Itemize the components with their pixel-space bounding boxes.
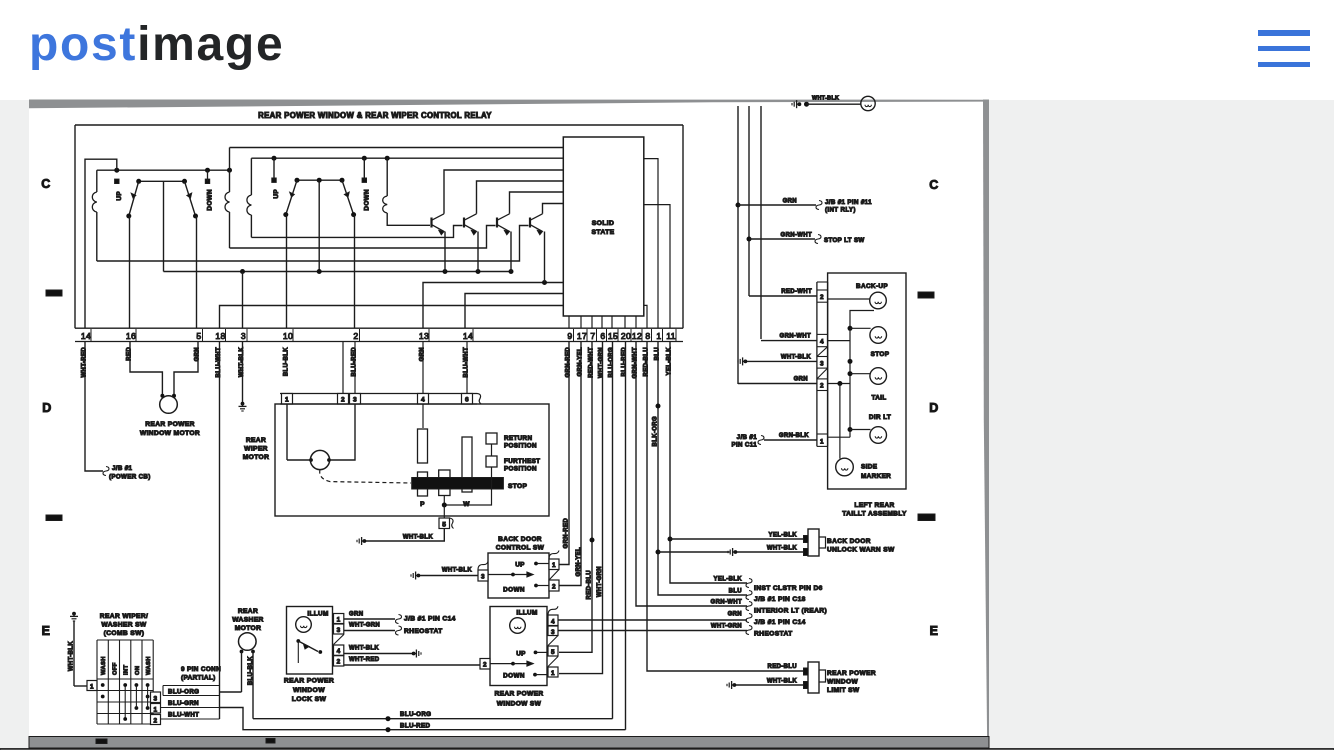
- svg-text:BLK-ORG: BLK-ORG: [653, 416, 659, 446]
- svg-text:4: 4: [337, 648, 341, 655]
- alignment mark right C: [918, 292, 934, 298]
- wire GRN lock sw: [344, 618, 395, 620]
- svg-text:UP: UP: [116, 191, 123, 201]
- wire to dir bulb: [850, 429, 871, 431]
- svg-text:13: 13: [419, 331, 429, 341]
- wiper motor terminal left: [309, 458, 313, 462]
- comb grid vertical 3: [130, 640, 132, 724]
- wire coilC top: [250, 158, 252, 195]
- svg-text:BLU-ORG: BLU-ORG: [168, 689, 199, 696]
- alignment mark bottom center: [266, 739, 275, 744]
- lamp SIDE MARKER: [836, 458, 854, 476]
- contact UP fixed group2: [272, 178, 276, 182]
- alignment mark right E: [918, 514, 935, 521]
- svg-text:14: 14: [463, 331, 473, 341]
- taillight connector rung y302.2: [817, 301, 828, 303]
- relay coil K2c: [383, 196, 388, 213]
- svg-text:STATE: STATE: [591, 229, 614, 236]
- svg-text:D: D: [42, 401, 51, 415]
- svg-text:18: 18: [215, 331, 225, 341]
- taillight connector rung y356.5: [817, 356, 828, 358]
- svg-text:WHT-RED: WHT-RED: [349, 657, 380, 663]
- wire bus4 ground bus: [164, 271, 512, 273]
- wiper connector strip bottom: [280, 403, 477, 405]
- washer terminal right: [251, 650, 255, 654]
- contact P upper: [418, 429, 428, 463]
- svg-text:BACK-UP: BACK-UP: [856, 283, 888, 290]
- svg-text:ILLUM: ILLUM: [516, 610, 537, 617]
- svg-text:14: 14: [81, 331, 91, 341]
- svg-text:BLU-RED: BLU-RED: [351, 347, 357, 377]
- svg-text:YEL-BLK: YEL-BLK: [769, 533, 798, 539]
- wire bus7 pin18 to solidstate: [220, 306, 564, 329]
- wire RED-WHT vertical from top: [748, 106, 750, 296]
- svg-text:DOWN: DOWN: [503, 587, 525, 594]
- ground unlock warn: [728, 548, 737, 556]
- comb contact dot 136.4,685: [135, 683, 139, 687]
- svg-text:(POWER CB): (POWER CB): [109, 474, 151, 481]
- wire WHT-BLK to taillight pin3: [747, 360, 817, 362]
- svg-text:GRN-WHT: GRN-WHT: [780, 334, 811, 340]
- svg-text:BLU-WHT: BLU-WHT: [463, 347, 469, 377]
- wire GRN-WHT vertical from top: [760, 106, 762, 339]
- svg-text:RHEOSTAT: RHEOSTAT: [754, 631, 793, 638]
- hatch mark 1: [817, 347, 828, 357]
- U1 pin stub x569: [568, 316, 570, 328]
- contact mid: [439, 470, 450, 496]
- ground limit sw: [727, 681, 736, 689]
- hook inst clstr: [746, 579, 752, 588]
- svg-text:WASH: WASH: [101, 656, 107, 675]
- hook rheostat a: [396, 626, 402, 635]
- svg-text:3: 3: [154, 696, 158, 703]
- svg-text:J/B #1 PIN C14: J/B #1 PIN C14: [754, 619, 806, 626]
- svg-text:PIN C11: PIN C11: [732, 442, 758, 449]
- scan photo dark top edge: [29, 100, 983, 109]
- wire GRN-YEL pin17 to bdcs2: [559, 342, 581, 586]
- svg-text:BLU: BLU: [729, 589, 742, 595]
- U1 pin stub x581: [580, 316, 582, 328]
- pin 14 tick: [472, 329, 474, 341]
- lamp illum window sw: [510, 618, 526, 634]
- taillight connector rung y290: [817, 289, 828, 291]
- svg-text:RED-WHT: RED-WHT: [781, 289, 812, 295]
- relay coil K1a: [92, 192, 97, 212]
- wire RED-WHT to taillight pin2: [749, 295, 817, 297]
- arrowhead switch1 left arm: [131, 193, 136, 198]
- pin 7 tick: [596, 329, 598, 341]
- svg-text:ON: ON: [135, 666, 141, 675]
- transistor Q1: [432, 214, 445, 235]
- svg-text:(PARTIAL): (PARTIAL): [181, 675, 216, 682]
- node switch1 lower right: [193, 214, 198, 219]
- node side marker tap: [837, 381, 842, 386]
- taillight connector rung y334.4: [817, 333, 828, 335]
- connector hook J/B power cb: [103, 467, 109, 476]
- stop cam plate: [412, 478, 504, 490]
- ground top cutoff: [792, 100, 801, 108]
- pin 3 tick: [246, 329, 248, 341]
- svg-text:REAR POWER: REAR POWER: [145, 421, 195, 428]
- svg-text:2: 2: [353, 331, 358, 341]
- wire pin10 up to switch: [286, 215, 288, 329]
- svg-text:RED-BLU: RED-BLU: [587, 570, 593, 599]
- bdcs up link: [536, 563, 549, 565]
- svg-text:STOP: STOP: [508, 483, 527, 490]
- arrowhead switch2 left arm: [290, 192, 295, 197]
- svg-text:15: 15: [608, 331, 618, 341]
- contact furthest position: [486, 456, 497, 467]
- comb pin 1 box: [87, 681, 97, 691]
- wire GRN-RED pin9 to bdcs1: [559, 342, 569, 565]
- pin 16 tick: [135, 329, 137, 341]
- comb contact dot 136.4,708: [135, 706, 139, 710]
- svg-text:WHT-BLK: WHT-BLK: [442, 568, 472, 574]
- comb ON column link: [135, 685, 137, 708]
- pin 20 tick: [630, 329, 632, 341]
- svg-text:GRN: GRN: [783, 199, 797, 205]
- window sw common link: [490, 663, 512, 665]
- svg-text:BLU-RED: BLU-RED: [400, 723, 430, 730]
- svg-text:1: 1: [285, 397, 289, 404]
- svg-text:CONTROL SW: CONTROL SW: [496, 545, 545, 552]
- wiper pin5 hook: [450, 518, 454, 529]
- transistor Q2: [464, 214, 477, 235]
- svg-text:1: 1: [552, 562, 556, 569]
- comb pin 2 box: [151, 715, 161, 725]
- wire to wiper motor left: [287, 459, 310, 461]
- wire BLU pin1 to J/B C18: [658, 342, 747, 596]
- ground wiper park: [357, 537, 366, 545]
- wire coilD to Q1 base: [387, 213, 430, 225]
- scanned diagram white area: [29, 99, 989, 748]
- svg-text:FURTHEST: FURTHEST: [504, 458, 540, 465]
- wire Q2 collector to U1: [477, 181, 564, 214]
- node bus stop: [848, 326, 853, 331]
- svg-text:WASHER SW: WASHER SW: [101, 622, 146, 629]
- comb contact dot 102.7,685: [101, 683, 105, 687]
- wire coilC to bus1: [250, 215, 252, 237]
- wire coilD top: [386, 158, 388, 196]
- svg-text:SOLID: SOLID: [592, 220, 615, 227]
- pin 18 tick: [225, 329, 227, 341]
- node GRN tap: [736, 203, 741, 208]
- svg-text:3: 3: [337, 627, 341, 634]
- window sw column hook: [548, 606, 558, 615]
- lamp illum lock sw: [296, 617, 312, 633]
- connector hook J/B pin11: [816, 201, 822, 210]
- node BLU-ORG bottom: [386, 716, 391, 721]
- motor M1 rear power window motor: [160, 396, 178, 414]
- wire YEL-BLK to unlock warn sw: [670, 538, 806, 540]
- relay box top edge: [75, 124, 683, 126]
- wire pin2 tail to bus: [828, 383, 850, 385]
- svg-text:2: 2: [552, 584, 556, 591]
- wire switch2 common down: [318, 180, 320, 271]
- wire group2 box top: [230, 147, 564, 149]
- comb contact dot 125.2,685: [123, 683, 127, 687]
- taillight connector rung y378.9: [817, 378, 828, 380]
- svg-text:DOWN: DOWN: [364, 189, 371, 211]
- svg-text:ILLUM: ILLUM: [307, 611, 328, 618]
- comb grid horizontal 679: [97, 678, 153, 680]
- svg-text:REAR POWER: REAR POWER: [495, 691, 544, 698]
- svg-text:7: 7: [590, 331, 595, 341]
- svg-text:17: 17: [577, 331, 587, 341]
- wire wiper pin1 down: [286, 404, 288, 460]
- svg-text:GRN-RED: GRN-RED: [564, 518, 570, 549]
- taillight connector rung y390.5: [817, 390, 828, 392]
- wire to stop bulb: [850, 327, 871, 329]
- comb label row line 2: [163, 695, 220, 697]
- svg-text:DOWN: DOWN: [503, 673, 525, 680]
- window sw up contact: [534, 651, 538, 655]
- motor terminal right: [172, 394, 176, 398]
- svg-text:WASHER: WASHER: [232, 617, 263, 624]
- svg-text:REAR POWER: REAR POWER: [827, 670, 876, 677]
- svg-text:DIR LT: DIR LT: [869, 414, 891, 421]
- svg-text:BLU-WHT: BLU-WHT: [168, 712, 199, 719]
- svg-text:J/B #1 PIN C14: J/B #1 PIN C14: [404, 616, 456, 623]
- window sw down link: [535, 674, 548, 676]
- svg-text:REAR POWER WINDOW & REAR WIPER: REAR POWER WINDOW & REAR WIPER CONTROL R…: [258, 111, 492, 120]
- svg-text:GRN-BLK: GRN-BLK: [779, 433, 809, 439]
- wire Q4 emitter down: [544, 232, 546, 283]
- svg-text:MOTOR: MOTOR: [243, 454, 270, 461]
- wire GRN-WHT to stop lt sw: [749, 238, 815, 240]
- svg-text:WHT-BLK: WHT-BLK: [69, 641, 75, 671]
- header bar: [0, 0, 1334, 100]
- rear power window switch box: [490, 607, 547, 686]
- wire washer right down: [252, 652, 254, 719]
- wire pin5 up to switch: [196, 216, 198, 328]
- svg-text:WHT-BLK: WHT-BLK: [812, 96, 839, 102]
- wire WHT-GRN window sw to rheostat: [558, 630, 747, 632]
- svg-text:UP: UP: [515, 562, 525, 569]
- left rear taillight assembly box: [828, 273, 906, 489]
- node rail1-UP1: [114, 168, 119, 173]
- window sw down contact: [533, 673, 537, 677]
- bdcs pin 3 box: [478, 570, 488, 581]
- wire BLU-WHT pin18 long vertical: [219, 342, 221, 720]
- arrowhead lock sw arm: [304, 644, 310, 649]
- pin 13 tick: [428, 329, 430, 341]
- node switch1 bar right: [182, 179, 187, 184]
- ground pin3: [239, 402, 247, 411]
- svg-text:OFF: OFF: [112, 662, 118, 675]
- svg-text:WHT-GRN: WHT-GRN: [598, 347, 604, 378]
- node bus tail: [848, 371, 853, 376]
- svg-text:WHT-BLK: WHT-BLK: [403, 535, 433, 541]
- wire bus1 coilC to Q2 base: [251, 226, 462, 238]
- node rail2-DOWN2: [362, 156, 367, 161]
- pin strip bottom line: [75, 341, 683, 343]
- rear wiper motor box: [275, 404, 549, 516]
- comb INT column link: [124, 685, 126, 719]
- svg-text:WHT-GRN: WHT-GRN: [711, 624, 742, 630]
- node rail1-DOWN1: [205, 168, 210, 173]
- wire WHT-BLK to bdcs: [420, 575, 478, 577]
- wire WHT-BLK lock sw: [344, 653, 412, 655]
- motor M2 rear wiper motor: [310, 450, 329, 469]
- relay coil K2a: [225, 192, 230, 212]
- svg-text:WHT-BLK: WHT-BLK: [349, 646, 379, 652]
- bdcs common link: [488, 574, 512, 576]
- wire GRN-BLK to taillight pin1: [764, 439, 817, 441]
- svg-text:UNLOCK WARN SW: UNLOCK WARN SW: [827, 547, 895, 554]
- svg-text:WINDOW SW: WINDOW SW: [497, 701, 542, 708]
- bdcs down link: [536, 585, 549, 587]
- wire WHT-RED to J/B: [85, 342, 103, 472]
- rear power window limit switch body: [804, 662, 826, 693]
- svg-text:D: D: [929, 401, 938, 415]
- comb grid vertical 4: [141, 640, 143, 724]
- ground comb switch: [70, 612, 78, 621]
- bdcs down contact: [534, 584, 538, 588]
- hook jb c14 a: [396, 615, 402, 624]
- svg-text:LEFT REAR: LEFT REAR: [854, 502, 894, 509]
- wire rail group1 top: [97, 169, 230, 171]
- window sw pin 4 box: [548, 615, 558, 626]
- wire GRN vertical from top: [737, 106, 739, 384]
- svg-text:MARKER: MARKER: [861, 473, 891, 480]
- node YEL-BLK unlock tap: [668, 537, 673, 542]
- wire to side marker: [839, 384, 841, 459]
- svg-text:6: 6: [600, 331, 605, 341]
- node GRN-WHT tap: [747, 237, 752, 242]
- wire RED-BLU pin7 to window sw 5: [559, 342, 592, 653]
- svg-text:11: 11: [666, 331, 676, 341]
- wire GRN-WHT pin12 to interior lt: [636, 342, 747, 607]
- svg-text:INT: INT: [124, 665, 130, 675]
- comb grid vertical 0: [96, 640, 98, 724]
- alignment mark bottom left: [96, 739, 107, 744]
- pin 8 tick: [651, 329, 653, 341]
- svg-text:WIPER: WIPER: [244, 446, 268, 453]
- svg-text:2: 2: [337, 659, 341, 666]
- wire comb BLU-ORG row to washer: [220, 691, 242, 693]
- node rail1-coilA: [227, 168, 232, 173]
- svg-text:RED-BLU: RED-BLU: [768, 664, 797, 670]
- contact DOWN fixed group2: [362, 178, 366, 182]
- window sw pin 1 box: [548, 667, 558, 677]
- svg-text:3: 3: [820, 361, 824, 368]
- pin 14 tick: [90, 329, 92, 341]
- svg-text:WHT-BLK: WHT-BLK: [767, 679, 797, 685]
- wire GRN pin13 to wiper pin4: [422, 342, 424, 394]
- node bus dir: [848, 427, 853, 432]
- taillight connector right rail: [827, 282, 829, 446]
- svg-text:1: 1: [551, 670, 555, 677]
- node bus5 Q4 emitter: [542, 280, 547, 285]
- hamburger menu icon: [1258, 30, 1310, 36]
- svg-text:2: 2: [341, 397, 345, 404]
- wire U1 to pin8: [644, 305, 647, 328]
- svg-text:WHT-BLK: WHT-BLK: [781, 354, 811, 360]
- wire switch1 common down: [163, 181, 165, 271]
- svg-text:3: 3: [353, 397, 357, 404]
- wire return to furthest: [491, 444, 493, 456]
- alignment mark left E: [46, 515, 62, 521]
- lamp TAIL: [870, 368, 887, 385]
- svg-text:BLU-GRN: BLU-GRN: [168, 700, 199, 707]
- postimage logo: [29, 17, 284, 72]
- bdcs pin1 hook: [549, 551, 559, 559]
- back door control switch box: [488, 553, 549, 598]
- svg-text:LOCK SW: LOCK SW: [292, 696, 327, 703]
- comb grid horizontal 702: [97, 701, 153, 703]
- wire BLU-ORG long bottom: [253, 718, 613, 720]
- wire pin1 to bus: [828, 436, 850, 438]
- svg-text:GRN-YEL: GRN-YEL: [576, 547, 582, 576]
- wire WHT-GRN lock sw: [344, 630, 395, 632]
- node BLU-RED bottom: [386, 727, 391, 732]
- svg-text:GRN: GRN: [728, 612, 742, 618]
- svg-text:SIDE: SIDE: [861, 464, 878, 471]
- rear power window lock switch box: [287, 607, 333, 675]
- wire GRN window sw to J/B C14: [558, 619, 747, 621]
- comb WASH2 column link: [147, 685, 149, 708]
- svg-text:2: 2: [154, 718, 158, 725]
- U1 pin stub x636: [635, 316, 637, 328]
- svg-text:1: 1: [820, 439, 824, 446]
- lock sw hatch: [334, 635, 344, 645]
- svg-text:UP: UP: [273, 189, 280, 199]
- svg-text:WASH: WASH: [146, 656, 152, 675]
- svg-text:REAR POWER: REAR POWER: [284, 678, 334, 685]
- comb grid vertical 1: [107, 640, 109, 724]
- lock sw contact b: [318, 650, 322, 654]
- comb pin 3 box: [151, 692, 161, 703]
- node rail2-coilD: [385, 156, 390, 161]
- wire coilA to bus3: [96, 212, 98, 261]
- svg-text:J/B #1: J/B #1: [737, 434, 758, 441]
- svg-text:5: 5: [442, 522, 446, 529]
- contact UP fixed group1: [115, 179, 119, 183]
- hook jb c18: [746, 591, 752, 600]
- comb contact dot 147.6,708: [146, 706, 150, 710]
- svg-text:REAR: REAR: [238, 608, 258, 615]
- wire GRN to window motor: [174, 342, 198, 397]
- pin 5 tick: [202, 329, 204, 341]
- wire Q3 emitter down: [510, 232, 512, 272]
- wire UP2 stub: [273, 158, 275, 180]
- comb grid horizontal 713.5: [97, 713, 153, 715]
- svg-text:RETURN: RETURN: [504, 435, 532, 442]
- svg-text:4: 4: [421, 397, 425, 404]
- switch bar group2: [297, 179, 342, 181]
- svg-text:BLU-BLK: BLU-BLK: [248, 656, 254, 685]
- node rail2-UP2: [272, 156, 277, 161]
- svg-text:WINDOW: WINDOW: [827, 679, 858, 686]
- wire Q1 emitter down: [444, 232, 446, 272]
- wiper connector hook end: [477, 394, 481, 405]
- taillight connector rung y446.4: [817, 445, 828, 447]
- wire wiper motor to pin3: [330, 404, 355, 460]
- lock sw pin 1 box: [334, 614, 344, 624]
- svg-text:1: 1: [656, 331, 661, 341]
- svg-text:WINDOW MOTOR: WINDOW MOTOR: [140, 430, 200, 437]
- node bus4-Q2e: [476, 269, 481, 274]
- svg-text:3: 3: [241, 331, 246, 341]
- svg-text:STOP LT SW: STOP LT SW: [824, 237, 865, 244]
- wire BLU-RED pin2 to wiper pin3: [354, 342, 356, 394]
- lock sw arm: [298, 641, 318, 652]
- pin 17 tick: [586, 329, 588, 341]
- wire washer left down: [241, 652, 243, 693]
- node switch2 bar left: [295, 178, 300, 183]
- contact P lower: [418, 472, 428, 496]
